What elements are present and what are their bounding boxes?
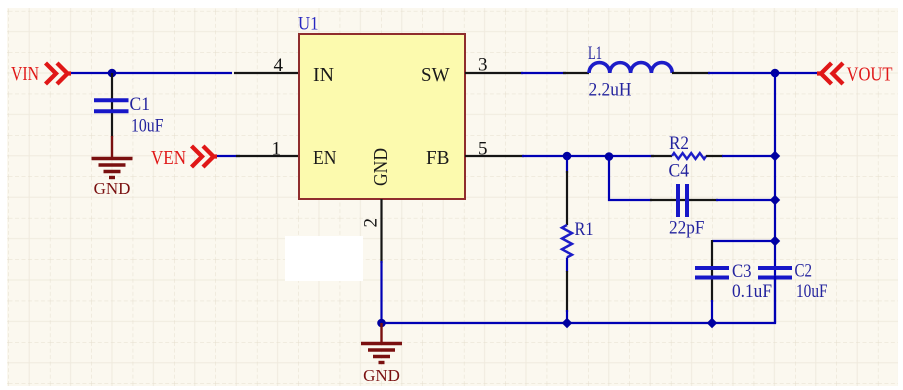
node VIN/C1 junction [108, 69, 117, 78]
svg-text:C4: C4 [669, 162, 690, 182]
op-amp U1 (regulator IC body) [299, 34, 465, 199]
wire VIN to IN pin [70, 72, 232, 74]
svg-text:VIN: VIN [11, 63, 39, 85]
svg-text:2.2uH: 2.2uH [589, 81, 632, 101]
node rail/C3 junction [707, 318, 717, 328]
svg-text:10uF: 10uF [796, 282, 828, 302]
capacitor C1 [94, 100, 129, 111]
node FB/R1 junction [563, 152, 572, 161]
svg-text:GND: GND [363, 366, 400, 385]
svg-text:GND: GND [94, 179, 131, 198]
svg-text:C2: C2 [795, 262, 813, 282]
wire C4 branch left [609, 156, 652, 200]
wire C1 top lead [111, 73, 113, 137]
svg-text:R2: R2 [669, 134, 689, 154]
svg-text:R1: R1 [575, 220, 594, 240]
capacitor C2 [758, 268, 792, 323]
svg-text:VEN: VEN [151, 147, 186, 169]
pin 3 SW (black pin segment) [465, 72, 523, 74]
port VOUT [817, 63, 893, 86]
node FB/C4 junction [605, 152, 614, 161]
svg-text:VOUT: VOUT [847, 64, 893, 86]
inductor L1 [563, 63, 710, 73]
svg-text:GND: GND [370, 148, 392, 186]
node C3/right column junction [770, 236, 780, 246]
wire L1 to VOUT [708, 72, 818, 74]
svg-text:L1: L1 [588, 44, 602, 64]
capacitor C3 [695, 268, 729, 323]
port VEN [151, 146, 217, 169]
node rail/GND junction [377, 319, 386, 328]
wire SW to L1 [521, 72, 566, 74]
wire pin2 to ground rail [380, 261, 382, 323]
pin 4 IN (black pin segment) [234, 72, 299, 74]
svg-text:C1: C1 [130, 95, 151, 115]
wire VEN to EN pin [216, 155, 240, 157]
svg-text:0.1uF: 0.1uF [732, 282, 772, 302]
resistor R2 [651, 153, 723, 159]
svg-text:EN: EN [313, 147, 337, 169]
svg-text:22pF: 22pF [669, 219, 705, 239]
svg-text:U1: U1 [298, 14, 319, 35]
ground GND1 [92, 136, 133, 178]
wire C4 to right column [716, 199, 775, 201]
svg-text:FB: FB [426, 147, 450, 169]
capacitor C4 [650, 184, 718, 217]
svg-text:1: 1 [272, 139, 282, 160]
wire FB line [522, 155, 654, 157]
pin 1 EN (black pin segment) [236, 155, 299, 157]
pin 2 GND (black pin segment) [380, 199, 382, 263]
svg-text:IN: IN [313, 64, 334, 86]
wire right column [774, 73, 776, 280]
node C4/right column junction [770, 195, 780, 205]
wire ground rail [382, 276, 776, 323]
ground GND2 [361, 323, 402, 363]
port VIN [11, 63, 71, 85]
node rail/R1 junction [562, 318, 572, 328]
svg-text:C3: C3 [732, 262, 752, 282]
svg-text:SW: SW [421, 64, 450, 86]
node FB/right column junction [770, 151, 780, 161]
svg-text:4: 4 [274, 55, 284, 76]
white patch [285, 236, 363, 281]
resistor R1 [562, 156, 572, 323]
wire R2 to right column [722, 155, 775, 157]
svg-text:2: 2 [361, 218, 382, 228]
wire C3 top lead [711, 240, 713, 302]
wire C3 branch top [712, 240, 775, 242]
svg-text:10uF: 10uF [131, 117, 164, 137]
node VOUT junction [771, 69, 780, 78]
pin 5 FB (black pin segment) [465, 155, 524, 157]
